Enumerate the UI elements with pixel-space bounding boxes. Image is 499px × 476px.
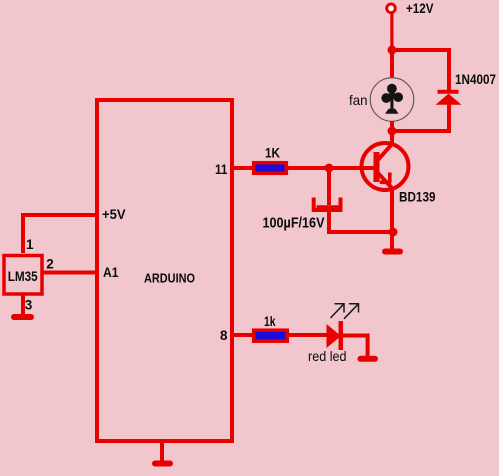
svg-text:ARDUINO: ARDUINO [144,270,195,285]
svg-text:+5V: +5V [102,207,126,222]
svg-text:11: 11 [215,162,228,177]
svg-text:A1: A1 [103,265,119,280]
svg-text:3: 3 [25,298,33,313]
svg-text:100µF/16V: 100µF/16V [263,216,325,232]
svg-text:+12V: +12V [406,1,434,16]
svg-text:1k: 1k [264,314,276,329]
svg-text:1: 1 [26,237,34,252]
svg-text:BD139: BD139 [399,190,436,205]
svg-text:1K: 1K [265,146,280,161]
svg-text:red led: red led [308,348,347,364]
svg-text:2: 2 [46,257,54,272]
svg-text:1N4007: 1N4007 [455,72,496,87]
svg-text:LM35: LM35 [8,269,38,284]
svg-text:fan: fan [349,92,368,108]
svg-text:8: 8 [220,328,228,343]
